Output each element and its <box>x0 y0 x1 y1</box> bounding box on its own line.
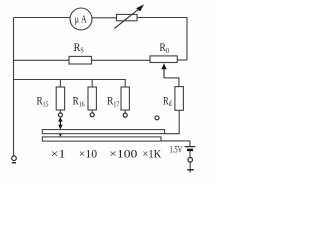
svg-text:×100: ×100 <box>109 146 137 160</box>
switch contact x10 (circle) <box>90 113 94 117</box>
wire: left rail <box>13 18 15 156</box>
wire: Rd bottom to bar1 right end <box>165 110 180 133</box>
wire: meter to rheostat <box>92 17 117 19</box>
wire: row2 left (rail to Rs) <box>14 59 70 61</box>
negative sign <box>12 162 16 164</box>
wire: top left segment <box>14 17 71 19</box>
switch contact x100 (circle) <box>123 113 127 117</box>
wire: R17 bottom lead <box>124 110 126 113</box>
wire: R0 wiper to Rd top <box>164 78 179 87</box>
resistor R17 box <box>121 87 129 110</box>
svg-text:×1: ×1 <box>51 146 66 160</box>
wire: R0 to right rail <box>177 59 187 61</box>
switch slider bar 2 (bottom) <box>42 137 161 141</box>
wire: Rs to R0 <box>92 59 151 61</box>
battery long plate (positive) <box>185 146 196 148</box>
svg-text:μ A: μ A <box>75 14 87 25</box>
wire: R15 bottom lead <box>59 110 61 113</box>
switch contact x1K (circle) <box>155 116 159 120</box>
resistor Rd box <box>175 87 184 111</box>
wire: R16 stub <box>91 80 93 88</box>
svg-text:×10: ×10 <box>79 146 97 160</box>
potentiometer R0 box <box>150 56 177 63</box>
negative probe terminal circle <box>12 156 17 161</box>
wire: rheostat to top-right corner and right rail <box>137 18 187 61</box>
resistor R15 box <box>56 87 64 110</box>
wire: below plus-terminal circle <box>189 162 191 173</box>
wire: bar2 right end to battery <box>161 141 190 146</box>
wire: R15 stub <box>59 80 61 88</box>
wiper contact double arrow at x1 position <box>58 117 62 136</box>
positive probe terminal circle <box>188 158 193 163</box>
rheostat box (variable resistor) <box>117 14 138 20</box>
potentiometer R0 wiper arrow <box>161 63 166 78</box>
wire: R16 bottom lead <box>91 110 93 113</box>
svg-text:×1K: ×1K <box>142 146 161 160</box>
switch slider bar 1 (top) <box>42 130 164 134</box>
svg-text:1.5V: 1.5V <box>170 146 183 156</box>
resistor R16 box <box>88 87 96 110</box>
ammeter uA meter circle <box>70 8 92 30</box>
resistor RS box <box>69 56 92 64</box>
wire: battery to plus terminal <box>189 151 191 158</box>
wire: bus row3 from rail to R17 stub <box>14 80 126 88</box>
positive sign <box>187 169 194 171</box>
rheostat diagonal arrow <box>114 4 144 28</box>
battery short thick plate (negative) <box>187 149 193 151</box>
switch contact x1 (circle) <box>58 113 62 117</box>
